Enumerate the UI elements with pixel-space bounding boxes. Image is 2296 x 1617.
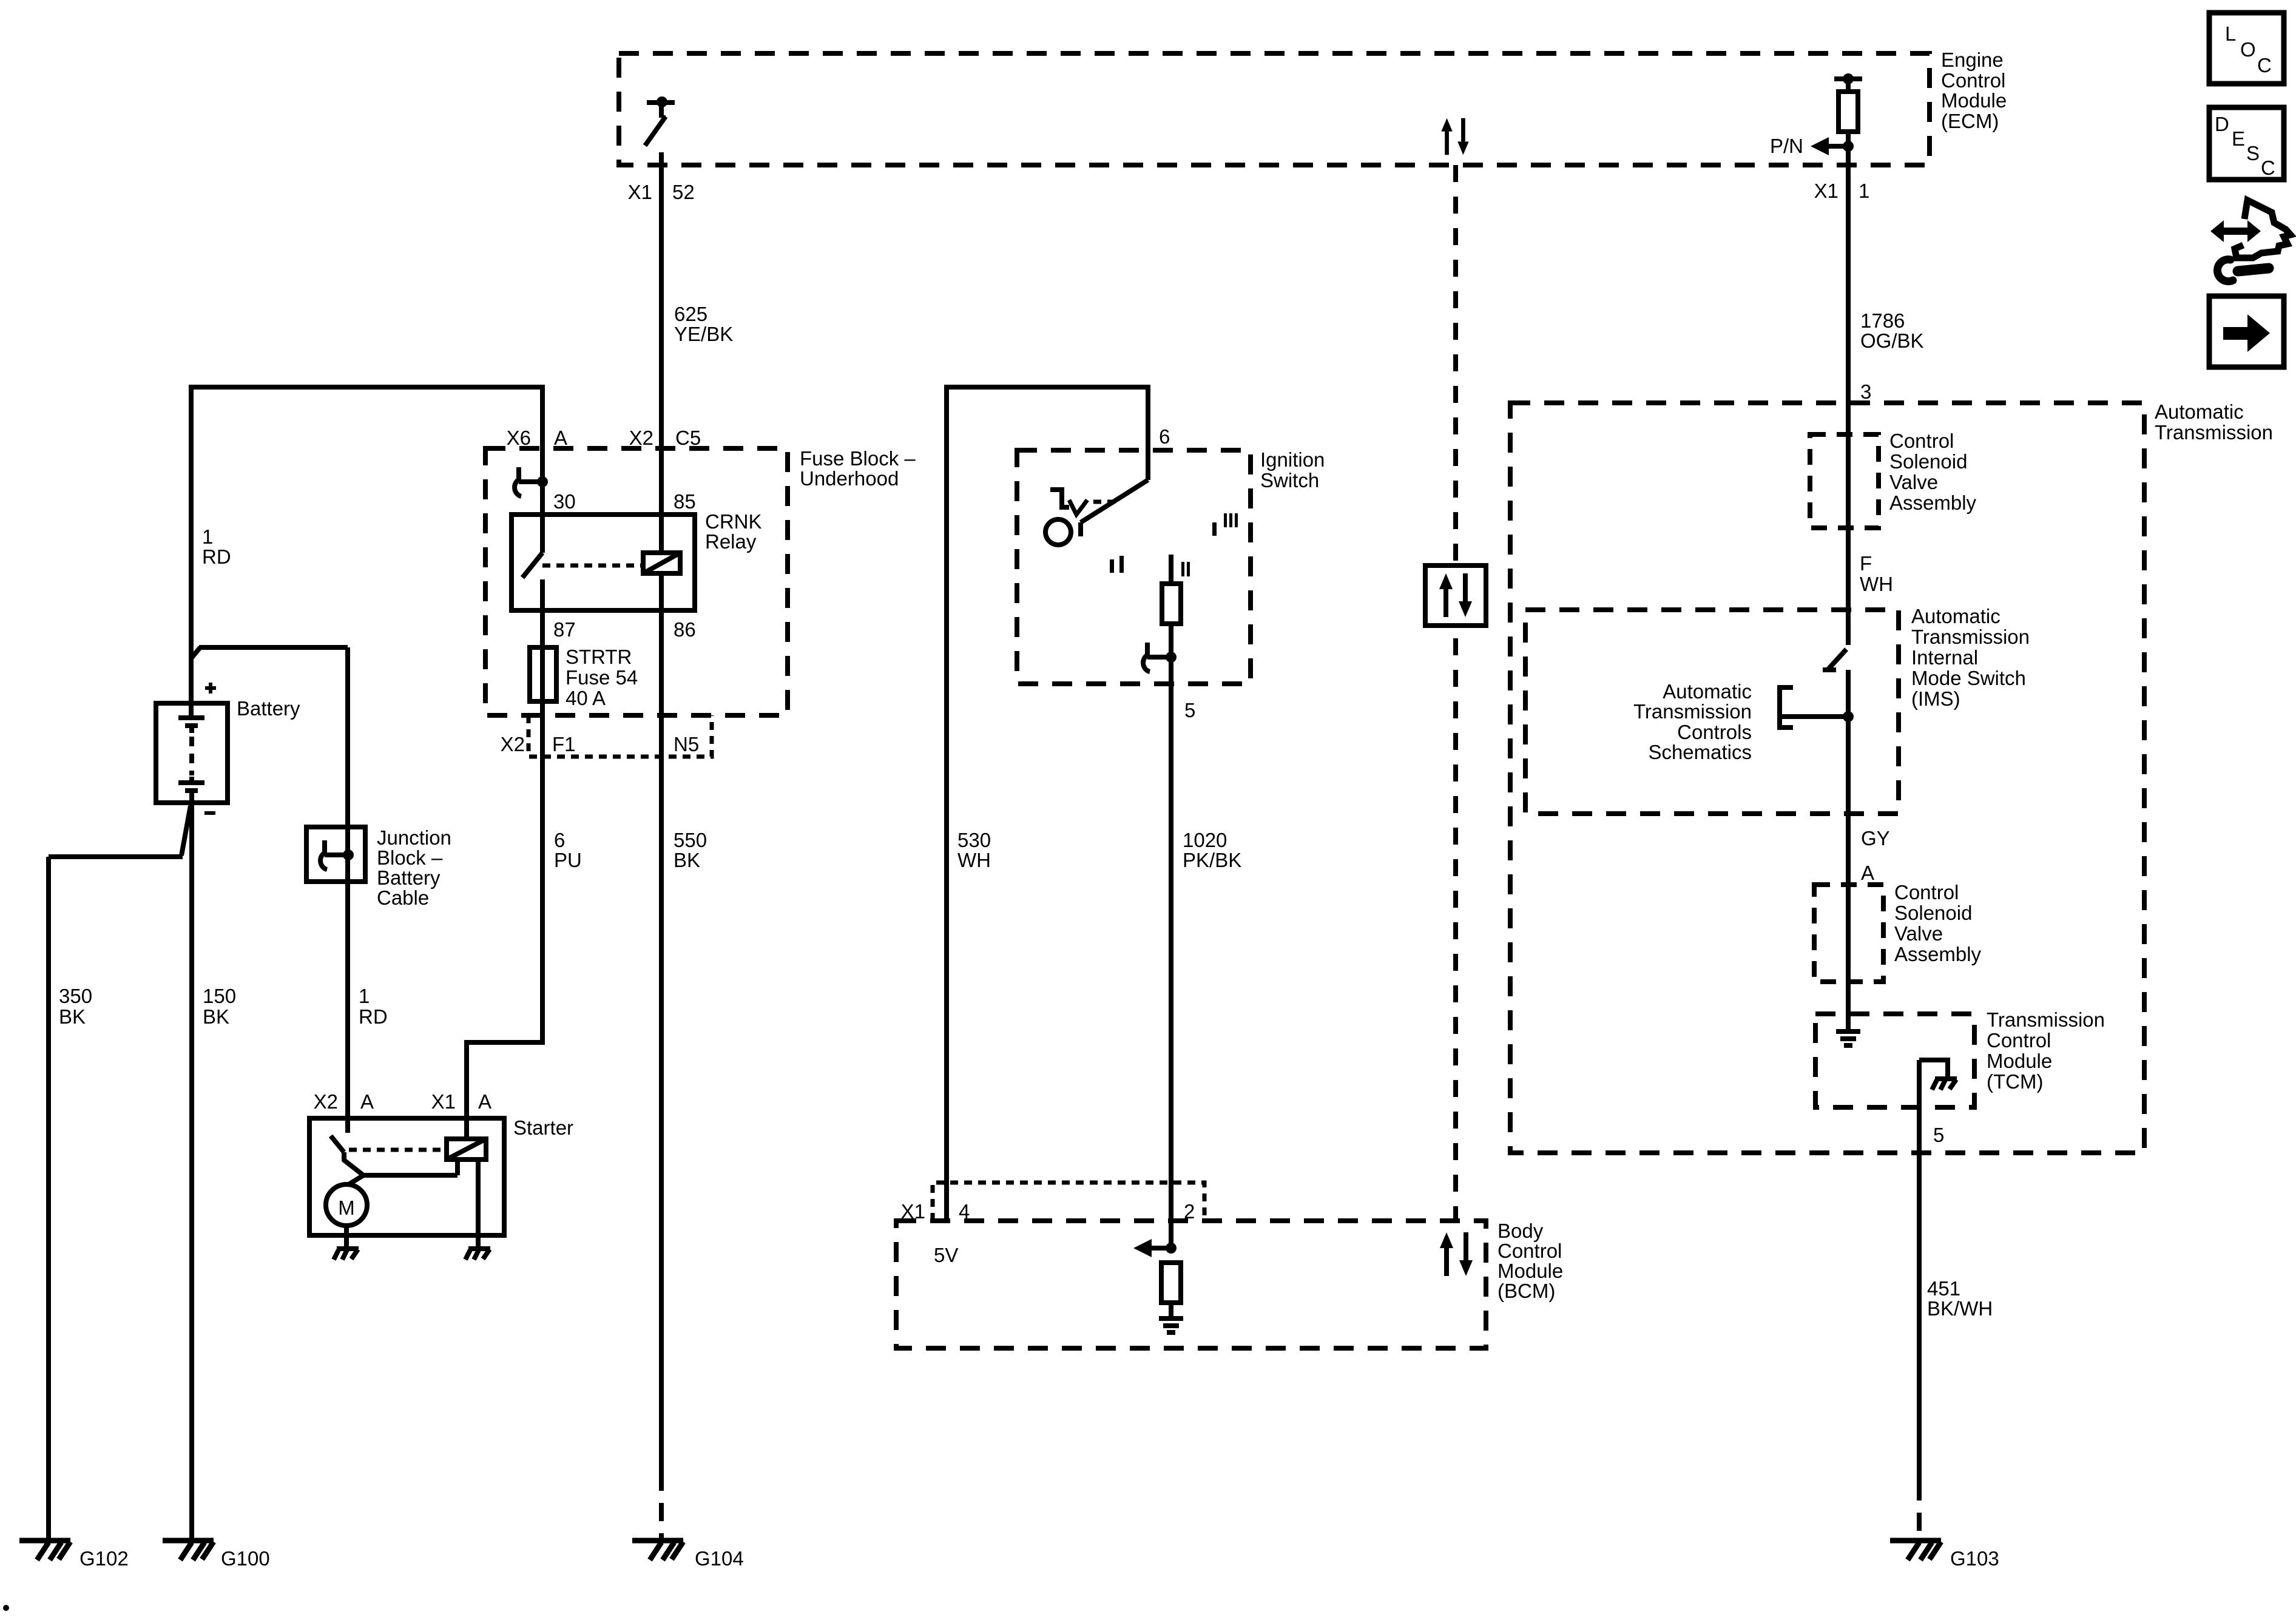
svg-text:Schematics: Schematics bbox=[1648, 741, 1752, 763]
svg-text:1: 1 bbox=[1859, 180, 1869, 202]
svg-text:Solenoid: Solenoid bbox=[1894, 902, 1972, 924]
svg-text:(ECM): (ECM) bbox=[1941, 110, 1999, 132]
svg-text:625: 625 bbox=[674, 303, 707, 325]
svg-text:(BCM): (BCM) bbox=[1497, 1280, 1555, 1302]
svg-text:85: 85 bbox=[674, 490, 696, 513]
svg-text:Block –: Block – bbox=[377, 846, 443, 869]
svg-text:1786: 1786 bbox=[1860, 309, 1905, 332]
svg-text:M: M bbox=[338, 1197, 355, 1219]
svg-text:Body: Body bbox=[1497, 1220, 1544, 1242]
svg-text:Mode Switch: Mode Switch bbox=[1911, 667, 2026, 689]
svg-text:350: 350 bbox=[59, 985, 92, 1007]
svg-text:1020: 1020 bbox=[1183, 829, 1227, 851]
svg-text:Transmission: Transmission bbox=[1633, 700, 1752, 723]
svg-text:BK: BK bbox=[203, 1005, 229, 1028]
svg-text:A: A bbox=[554, 427, 567, 449]
svg-text:Valve: Valve bbox=[1894, 922, 1943, 945]
svg-text:87: 87 bbox=[553, 618, 576, 641]
svg-text:BK: BK bbox=[674, 849, 700, 871]
svg-text:BK/WH: BK/WH bbox=[1927, 1297, 1993, 1320]
svg-text:Transmission: Transmission bbox=[1911, 626, 2030, 648]
svg-text:O: O bbox=[2240, 38, 2256, 61]
svg-text:X2: X2 bbox=[314, 1090, 338, 1113]
svg-text:STRTR: STRTR bbox=[566, 646, 632, 668]
svg-text:CRNK: CRNK bbox=[705, 510, 762, 533]
svg-text:Module: Module bbox=[1987, 1050, 2052, 1072]
svg-text:Module: Module bbox=[1497, 1260, 1563, 1282]
svg-text:WH: WH bbox=[1860, 573, 1893, 595]
svg-text:Assembly: Assembly bbox=[1889, 491, 1977, 514]
svg-text:Control: Control bbox=[1894, 881, 1959, 903]
svg-text:4: 4 bbox=[959, 1200, 970, 1223]
svg-text:N5: N5 bbox=[674, 733, 699, 755]
svg-text:X2: X2 bbox=[629, 427, 653, 449]
svg-text:3: 3 bbox=[1860, 380, 1871, 403]
svg-text:30: 30 bbox=[553, 490, 576, 513]
svg-text:BK: BK bbox=[59, 1005, 86, 1028]
svg-text:Assembly: Assembly bbox=[1894, 943, 1982, 965]
svg-text:5: 5 bbox=[1933, 1124, 1944, 1146]
svg-text:YE/BK: YE/BK bbox=[674, 323, 733, 345]
svg-text:E: E bbox=[2232, 127, 2245, 150]
svg-text:451: 451 bbox=[1927, 1277, 1960, 1300]
svg-text:C: C bbox=[2257, 54, 2272, 76]
svg-text:G100: G100 bbox=[221, 1547, 270, 1570]
svg-text:1: 1 bbox=[359, 985, 370, 1007]
svg-text:X1: X1 bbox=[1814, 180, 1838, 202]
svg-text:Module: Module bbox=[1941, 89, 2007, 112]
svg-text:Valve: Valve bbox=[1889, 471, 1938, 493]
svg-text:PK/BK: PK/BK bbox=[1183, 849, 1241, 871]
svg-text:5: 5 bbox=[1184, 699, 1195, 721]
svg-text:Solenoid: Solenoid bbox=[1889, 450, 1967, 473]
svg-text:Automatic: Automatic bbox=[1911, 605, 2001, 627]
svg-text:40 A: 40 A bbox=[566, 687, 606, 709]
svg-text:RD: RD bbox=[202, 545, 231, 568]
svg-text:Transmission: Transmission bbox=[2155, 421, 2273, 444]
svg-text:Battery: Battery bbox=[377, 866, 441, 889]
svg-text:C: C bbox=[2261, 157, 2275, 179]
svg-text:Controls: Controls bbox=[1677, 721, 1752, 743]
svg-text:2: 2 bbox=[1184, 1200, 1195, 1223]
svg-text:X6: X6 bbox=[507, 427, 531, 449]
svg-text:S: S bbox=[2246, 142, 2260, 164]
svg-text:5V: 5V bbox=[934, 1244, 958, 1266]
svg-text:L: L bbox=[2225, 22, 2236, 45]
svg-text:1: 1 bbox=[202, 525, 213, 548]
svg-text:X2: X2 bbox=[501, 733, 525, 755]
svg-text:X1: X1 bbox=[628, 181, 652, 203]
svg-text:Relay: Relay bbox=[705, 530, 757, 553]
svg-text:F: F bbox=[1860, 552, 1872, 575]
svg-text:X1: X1 bbox=[431, 1090, 456, 1113]
svg-text:530: 530 bbox=[957, 829, 991, 851]
svg-text:Switch: Switch bbox=[1260, 469, 1319, 491]
svg-text:(IMS): (IMS) bbox=[1911, 687, 1960, 710]
svg-text:Fuse Block –: Fuse Block – bbox=[800, 447, 916, 470]
svg-text:C5: C5 bbox=[675, 427, 701, 449]
svg-text:WH: WH bbox=[957, 849, 991, 871]
svg-text:Internal: Internal bbox=[1911, 646, 1978, 669]
svg-text:6: 6 bbox=[1159, 425, 1170, 448]
svg-text:6: 6 bbox=[554, 829, 565, 851]
svg-text:P/N: P/N bbox=[1770, 135, 1803, 157]
svg-text:OG/BK: OG/BK bbox=[1860, 329, 1924, 352]
svg-text:Engine: Engine bbox=[1941, 49, 2004, 71]
svg-text:G103: G103 bbox=[1950, 1547, 1999, 1570]
svg-text:D: D bbox=[2215, 113, 2229, 135]
svg-text:(TCM): (TCM) bbox=[1987, 1070, 2043, 1093]
svg-text:X1: X1 bbox=[901, 1200, 925, 1223]
svg-text:Automatic: Automatic bbox=[1663, 680, 1752, 703]
svg-text:G104: G104 bbox=[695, 1547, 744, 1570]
svg-text:Ignition: Ignition bbox=[1260, 448, 1325, 471]
svg-text:Transmission: Transmission bbox=[1987, 1008, 2105, 1031]
svg-text:GY: GY bbox=[1861, 827, 1890, 849]
svg-text:52: 52 bbox=[672, 181, 695, 203]
svg-text:Junction: Junction bbox=[377, 826, 451, 849]
svg-text:Control: Control bbox=[1497, 1240, 1562, 1262]
svg-text:Battery: Battery bbox=[237, 697, 300, 720]
svg-text:A: A bbox=[360, 1090, 374, 1113]
svg-text:550: 550 bbox=[674, 829, 707, 851]
svg-text:G102: G102 bbox=[79, 1547, 129, 1570]
svg-text:A: A bbox=[1861, 862, 1874, 884]
svg-text:Control: Control bbox=[1987, 1029, 2051, 1052]
svg-text:F1: F1 bbox=[552, 733, 576, 755]
svg-text:Control: Control bbox=[1889, 430, 1954, 452]
svg-text:Fuse 54: Fuse 54 bbox=[566, 666, 638, 689]
svg-text:Underhood: Underhood bbox=[800, 467, 899, 490]
svg-text:86: 86 bbox=[674, 618, 696, 641]
svg-text:150: 150 bbox=[203, 985, 236, 1007]
svg-text:Automatic: Automatic bbox=[2155, 400, 2244, 423]
svg-text:A: A bbox=[478, 1090, 491, 1113]
svg-text:Control: Control bbox=[1941, 69, 2005, 92]
svg-text:Cable: Cable bbox=[377, 886, 429, 909]
svg-text:RD: RD bbox=[359, 1005, 388, 1028]
svg-text:Starter: Starter bbox=[513, 1116, 573, 1139]
svg-text:PU: PU bbox=[554, 849, 582, 871]
